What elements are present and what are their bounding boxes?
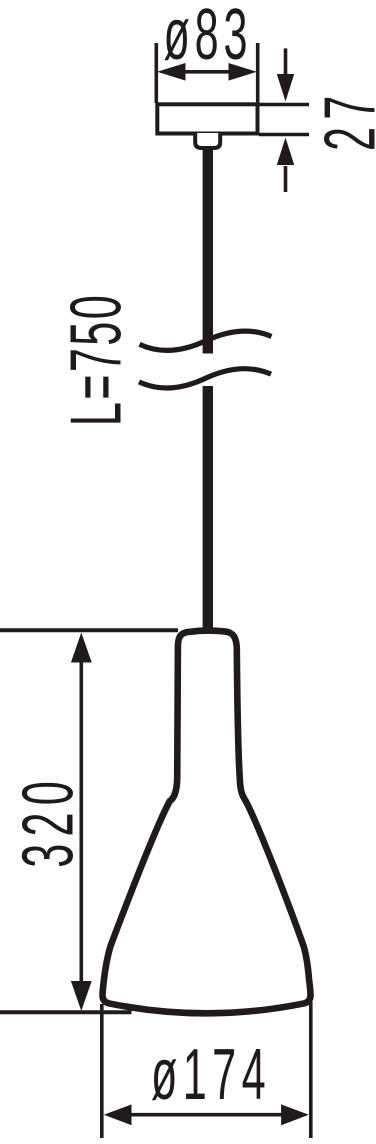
svg-text:L=750: L=750 — [55, 293, 136, 426]
svg-text:320: 320 — [7, 774, 88, 868]
svg-text:ø83: ø83 — [163, 0, 252, 75]
svg-text:27: 27 — [309, 89, 376, 151]
svg-text:ø174: ø174 — [151, 1033, 271, 1114]
